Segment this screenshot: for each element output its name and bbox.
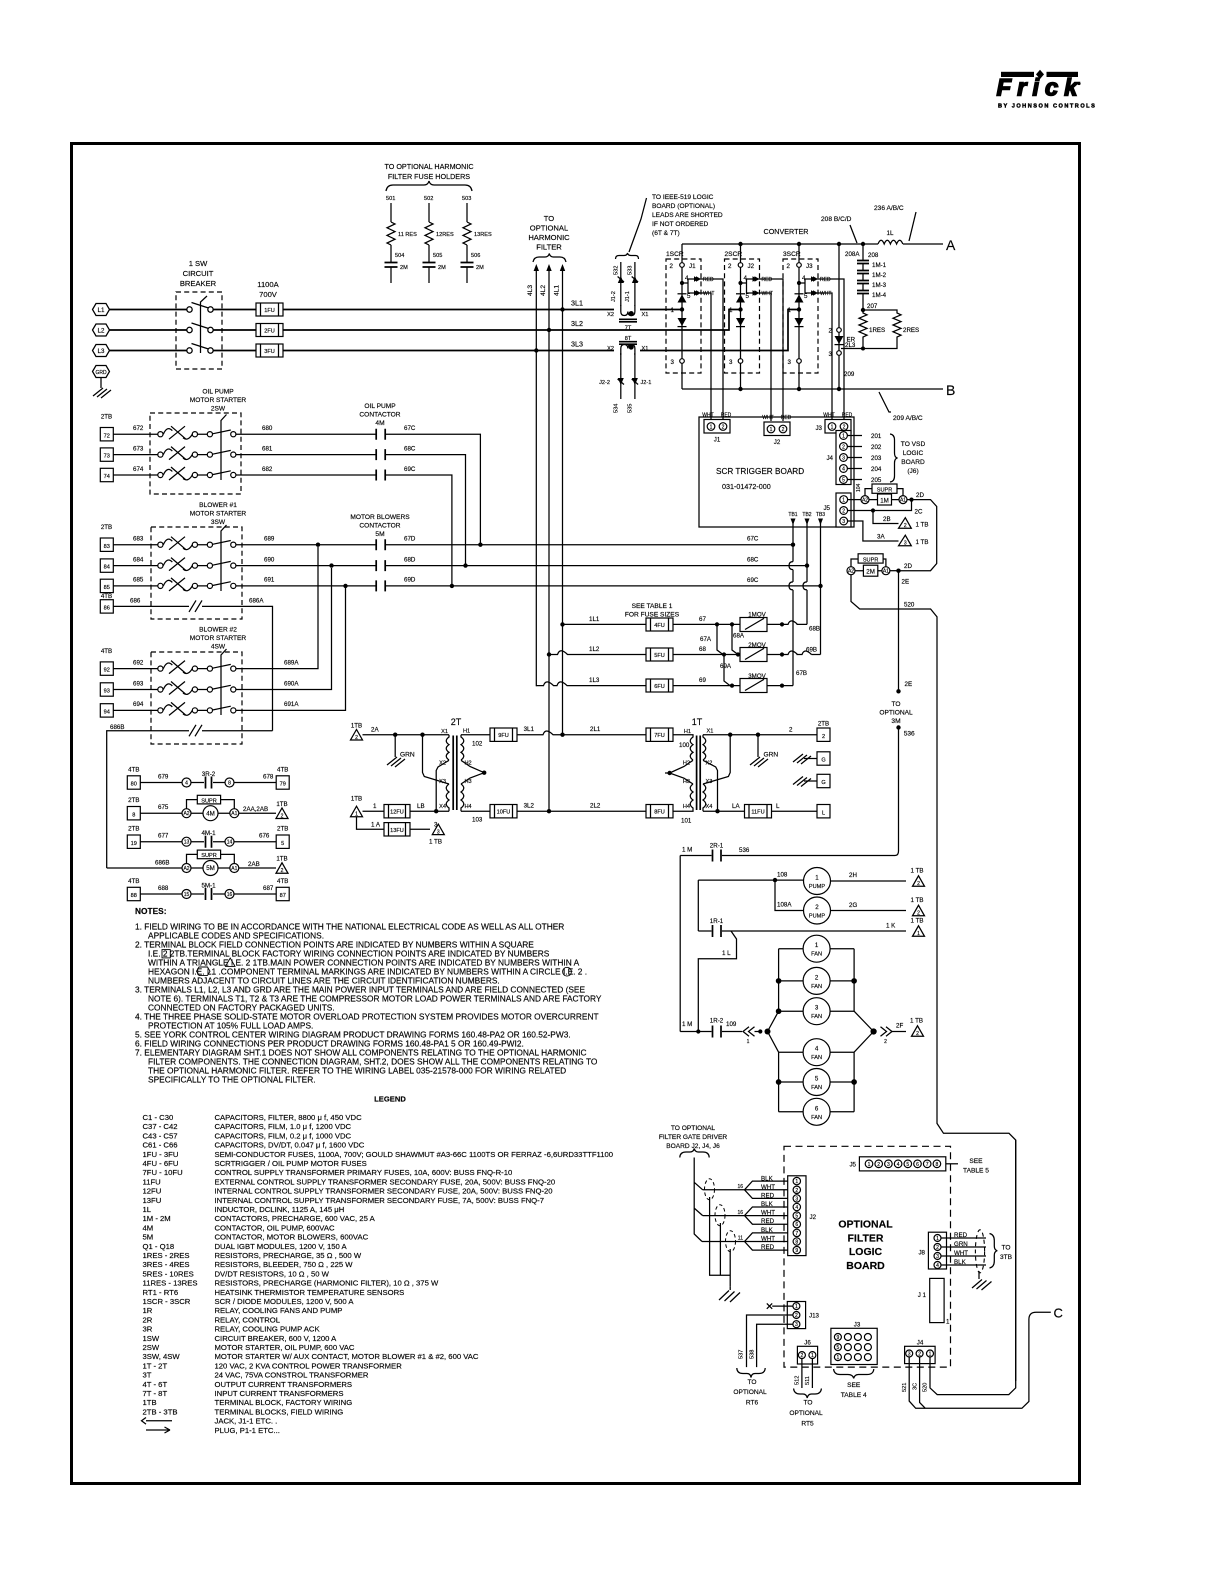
wire 503: [462, 196, 471, 222]
brace to VSD: [890, 434, 898, 482]
svg-text:1: 1: [795, 1304, 798, 1310]
terminal 73: [100, 448, 113, 461]
brace under title: [386, 181, 472, 191]
resistor 12RES: [425, 222, 454, 245]
svg-text:MOTOR STARTER W/ AUX CONTACT,: MOTOR STARTER W/ AUX CONTACT, MOTOR BLOW…: [215, 1352, 479, 1361]
svg-text:BLOWER #1: BLOWER #1: [199, 502, 237, 509]
svg-text:RED: RED: [762, 277, 773, 283]
fuse 13FU: [384, 823, 410, 836]
svg-text:IF NOT ORDERED: IF NOT ORDERED: [652, 221, 709, 228]
CT 7T secondary lead 533: [625, 262, 638, 306]
label 209 A/B/C: [879, 392, 923, 422]
svg-text:A1: A1: [900, 498, 906, 504]
to optional filter gate driver title: [659, 1125, 728, 1150]
varistor 3MOV: [740, 673, 767, 693]
svg-text:86: 86: [104, 606, 110, 612]
svg-text:SEE: SEE: [969, 1158, 983, 1165]
svg-text:C37 - C42: C37 - C42: [143, 1122, 178, 1131]
svg-text:1: 1: [747, 1039, 750, 1045]
SCR module 3SCR: [783, 244, 844, 419]
svg-text:85: 85: [104, 585, 110, 591]
svg-text:686B: 686B: [110, 724, 124, 731]
wire 521 to C: [902, 1306, 1063, 1409]
svg-text:L2: L2: [98, 328, 105, 335]
resistor 1RES: [859, 310, 885, 342]
svg-text:1 TB: 1 TB: [910, 1018, 923, 1025]
svg-text:109: 109: [726, 1021, 737, 1028]
svg-text:J2: J2: [774, 439, 781, 446]
optional filter logic board dashed outline: [784, 1146, 951, 1367]
svg-text:16: 16: [227, 892, 233, 898]
svg-text:H1: H1: [463, 729, 470, 735]
terminal 1TB 3: [429, 824, 444, 845]
svg-text:CONTACTOR: CONTACTOR: [359, 523, 400, 530]
svg-text:534: 534: [614, 404, 620, 413]
svg-text:3: 3: [842, 456, 845, 462]
border frame: [72, 144, 1080, 1484]
svg-text:7: 7: [795, 1231, 798, 1237]
svg-text:LA: LA: [732, 803, 740, 810]
svg-text:94: 94: [104, 710, 110, 716]
optional filter logic board title: [838, 1219, 893, 1272]
svg-text:73: 73: [104, 454, 110, 460]
svg-text:204: 204: [871, 466, 882, 473]
fan motor 5: [779, 1069, 855, 1096]
gate driver harness vertical: [694, 1158, 703, 1242]
svg-text:1M - 2M: 1M - 2M: [143, 1214, 171, 1223]
svg-text:3L2: 3L2: [524, 803, 535, 810]
svg-text:1L: 1L: [143, 1205, 152, 1214]
connector J4: [826, 431, 851, 485]
wire 67C: [385, 425, 482, 547]
capacitor 2M (3): [461, 263, 485, 284]
svg-text:2: 2: [355, 735, 358, 741]
svg-text:SPECIFICALLY TO THE OPTIONAL F: SPECIFICALLY TO THE OPTIONAL FILTER.: [148, 1075, 316, 1085]
svg-text:X1: X1: [707, 729, 714, 735]
wire 673: [113, 445, 376, 454]
svg-text:J3: J3: [815, 425, 822, 432]
svg-text:19: 19: [131, 841, 137, 847]
svg-text:6: 6: [795, 1222, 798, 1228]
wire breaker to fuse 3FU: [213, 350, 256, 352]
wire 1L2 row: [547, 646, 646, 657]
svg-text:15: 15: [184, 892, 190, 898]
junction 4L2-3L2: [547, 328, 551, 332]
svg-text:2: 2: [670, 263, 674, 270]
svg-text:2M: 2M: [476, 265, 484, 271]
svg-text:1 A: 1 A: [371, 821, 381, 828]
svg-text:11RES - 13RES: 11RES - 13RES: [143, 1279, 198, 1288]
svg-text:688: 688: [158, 885, 169, 892]
svg-text:Q1 - Q18: Q1 - Q18: [143, 1242, 175, 1251]
svg-text:J5: J5: [849, 1161, 856, 1168]
svg-text:WHT: WHT: [761, 1184, 775, 1191]
fuse 8FU: [646, 805, 673, 818]
svg-text:1 TB: 1 TB: [911, 897, 924, 904]
svg-text:683: 683: [133, 536, 144, 543]
svg-text:2RES: 2RES: [903, 327, 919, 334]
svg-text:J5: J5: [823, 505, 830, 512]
wire 68A jog: [732, 624, 745, 654]
wire 3A to terminal: [848, 521, 929, 547]
harness group 3 wires: [702, 1227, 793, 1251]
svg-text:RELAY, CONTROL: RELAY, CONTROL: [215, 1315, 281, 1324]
B rail: [682, 388, 943, 390]
wire 504: [391, 245, 404, 263]
svg-text:120 VAC, 2 KVA CONTROL POWER T: 120 VAC, 2 KVA CONTROL POWER TRANSFORMER: [215, 1361, 403, 1370]
svg-text:2G: 2G: [849, 902, 857, 909]
terminal 2TB 2 field: [817, 721, 830, 742]
wire 2F to terminal: [881, 1018, 924, 1046]
wire 69A jog: [720, 655, 732, 686]
svg-text:CONTACTOR: CONTACTOR: [359, 412, 400, 419]
svg-text:C43 - C57: C43 - C57: [143, 1131, 178, 1140]
fuse 11FU: [745, 805, 772, 818]
svg-text:WHT: WHT: [820, 291, 831, 297]
svg-text:TABLE 4: TABLE 4: [841, 1392, 867, 1399]
svg-text:RT6: RT6: [746, 1400, 759, 1407]
brace under filter title: [533, 254, 566, 263]
fuse 6FU: [646, 679, 673, 692]
svg-text:6: 6: [916, 1162, 919, 1168]
svg-text:1 M: 1 M: [682, 847, 692, 854]
svg-text:LOGIC: LOGIC: [849, 1246, 883, 1258]
svg-text:5M: 5M: [375, 531, 384, 538]
svg-text:67C: 67C: [404, 425, 416, 432]
wire LA 11FU L: [703, 803, 745, 811]
svg-text:3: 3: [887, 1162, 890, 1168]
svg-text:MOTOR STARTER, OIL PUMP, 600 V: MOTOR STARTER, OIL PUMP, 600 VAC: [215, 1343, 355, 1352]
wire 68C: [385, 445, 467, 567]
svg-text:2: 2: [722, 425, 725, 431]
brace above CT leads: [616, 253, 639, 259]
svg-text:FAN: FAN: [811, 952, 822, 958]
connector J1: [702, 413, 731, 444]
svg-text:RED: RED: [761, 1192, 775, 1199]
svg-text:TERMINAL BLOCKS, FIELD WIRING: TERMINAL BLOCKS, FIELD WIRING: [215, 1407, 344, 1416]
svg-text:2FU: 2FU: [264, 329, 275, 335]
svg-text:506: 506: [471, 253, 480, 259]
svg-text:WHT: WHT: [761, 1236, 775, 1243]
wire 1L jog: [696, 931, 736, 1034]
svg-text:INPUT CURRENT TRANSFORMERS: INPUT CURRENT TRANSFORMERS: [215, 1389, 344, 1398]
svg-text:2H: 2H: [849, 872, 857, 879]
svg-text:680: 680: [262, 425, 273, 432]
junction 4L3-3L3: [534, 348, 538, 352]
wire 4L1 with arrow: [554, 264, 566, 735]
svg-text:B: B: [946, 382, 955, 398]
wire 4L2 with arrow: [540, 264, 552, 811]
capacitor bank 1M-1..1M-4: [857, 244, 887, 312]
svg-text:694: 694: [133, 701, 144, 708]
svg-text:686A: 686A: [249, 597, 264, 604]
brace under gate driver title: [680, 1149, 709, 1158]
svg-text:3L1: 3L1: [571, 299, 583, 308]
wire 3L1 fuse to converter: [283, 309, 680, 311]
J5 to table 5: [946, 1158, 989, 1175]
svg-text:J8: J8: [918, 1250, 925, 1257]
label 208 B/C/D: [821, 216, 857, 243]
svg-text:2AB: 2AB: [248, 861, 260, 868]
svg-text:J2: J2: [810, 1214, 817, 1221]
svg-text:67A: 67A: [700, 636, 712, 643]
svg-text:TO IEEE-519 LOGIC: TO IEEE-519 LOGIC: [652, 194, 714, 201]
svg-text:69C: 69C: [747, 577, 759, 584]
svg-text:68C: 68C: [747, 557, 759, 564]
svg-text:OPTIONAL: OPTIONAL: [733, 1389, 767, 1396]
junction dots on blower rows: [316, 543, 320, 547]
svg-text:1: 1: [917, 931, 920, 937]
svg-text:1: 1: [815, 875, 819, 882]
terminal 4TB 86: [100, 593, 113, 613]
terminal 94: [100, 704, 113, 717]
fan bank left bus: [768, 949, 781, 1112]
wire 520 lower run: [923, 1140, 1016, 1395]
svg-text:3: 3: [829, 351, 833, 358]
svg-text:685: 685: [133, 577, 144, 584]
svg-text:1RES: 1RES: [869, 327, 885, 334]
twisted pair marks: [705, 1179, 736, 1252]
svg-text:TB3: TB3: [816, 512, 825, 518]
svg-text:103: 103: [472, 817, 483, 824]
svg-text:J3: J3: [854, 1322, 861, 1329]
svg-text:4TB: 4TB: [277, 767, 288, 774]
svg-text:3L2: 3L2: [571, 319, 583, 328]
J8 wires RED GRN WHT BLK: [941, 1230, 1013, 1273]
svg-text:RED: RED: [842, 413, 853, 419]
IEEE-519 note text: [652, 194, 723, 237]
terminal 4TB 92: [100, 648, 113, 675]
svg-text:X2: X2: [607, 346, 614, 352]
svg-text:FILTER: FILTER: [848, 1232, 884, 1244]
wire breaker to fuse 2FU: [213, 329, 256, 331]
svg-text:2F: 2F: [896, 1023, 903, 1030]
svg-text:MOTOR BLOWERS: MOTOR BLOWERS: [350, 514, 410, 521]
svg-text:SEE TABLE 1: SEE TABLE 1: [632, 603, 673, 610]
svg-text:INDUCTOR, DCLINK, 1125 A, 145: INDUCTOR, DCLINK, 1125 A, 145 μH: [215, 1205, 345, 1214]
svg-text:108A: 108A: [777, 902, 792, 909]
svg-text:201: 201: [871, 433, 882, 440]
connector J5: [823, 493, 851, 527]
svg-text:CONTACTOR, MOTOR BLOWERS, 600V: CONTACTOR, MOTOR BLOWERS, 600VAC: [215, 1233, 369, 1242]
svg-text:EXTERNAL CONTROL SUPPLY TRANSF: EXTERNAL CONTROL SUPPLY TRANSFORMER SECO…: [215, 1177, 556, 1186]
svg-text:1: 1: [946, 1319, 950, 1326]
connector J2: [762, 415, 791, 446]
svg-text:G: G: [821, 780, 825, 786]
svg-text:2E: 2E: [905, 681, 913, 688]
svg-text:3: 3: [795, 1196, 798, 1202]
svg-text:2SCR: 2SCR: [725, 251, 743, 258]
svg-text:BLK: BLK: [761, 1201, 774, 1208]
svg-text:J4: J4: [826, 455, 833, 462]
svg-text:682: 682: [262, 466, 273, 473]
svg-text:10FU: 10FU: [497, 810, 511, 816]
current transformer 7T: [607, 305, 648, 332]
breaker pole L2: [187, 323, 213, 333]
svg-text:501: 501: [386, 196, 395, 202]
svg-text:16: 16: [737, 1210, 743, 1216]
wire 4L3 with arrow: [527, 264, 539, 686]
svg-text:2TB: 2TB: [128, 797, 139, 804]
resistor 11RES: [387, 222, 417, 245]
svg-text:GRN: GRN: [764, 752, 779, 759]
svg-text:2: 2: [815, 904, 819, 911]
svg-text:4M: 4M: [206, 810, 215, 817]
fan bank right bus: [852, 949, 876, 1112]
svg-text:3FU: 3FU: [264, 349, 275, 355]
svg-text:2TB - 3TB: 2TB - 3TB: [143, 1407, 178, 1416]
junction T-wire dots: [791, 543, 795, 547]
svg-text:LOGIC: LOGIC: [903, 450, 924, 457]
inductor 1L: [878, 230, 903, 244]
svg-text:69D: 69D: [404, 577, 416, 584]
4SW pole 1: [158, 661, 236, 674]
resistor 2RES: [863, 310, 919, 349]
svg-text:OPTIONAL: OPTIONAL: [838, 1219, 893, 1231]
wire 3L1 to 2L1: [517, 726, 646, 737]
svg-text:1RES - 2RES: 1RES - 2RES: [143, 1251, 190, 1260]
svg-text:208: 208: [868, 252, 879, 259]
J8 shield ground: [972, 1271, 992, 1290]
fan motor 3: [779, 998, 855, 1025]
svg-text:4FU: 4FU: [654, 623, 665, 629]
svg-text:13RES: 13RES: [474, 232, 492, 238]
brace RT5: [794, 1389, 822, 1399]
CT 8T secondary lead 535: [628, 353, 652, 413]
svg-text:2: 2: [281, 868, 284, 874]
svg-text:4TB: 4TB: [277, 878, 288, 885]
svg-text:MOTOR STARTER: MOTOR STARTER: [190, 397, 247, 404]
fan motor 4: [779, 1039, 855, 1066]
svg-text:LB: LB: [417, 803, 425, 810]
terminal GRD: [93, 366, 110, 378]
wire 68D: [385, 556, 807, 565]
brace RT6: [737, 1368, 765, 1378]
svg-text:2L3: 2L3: [845, 342, 856, 349]
svg-text:679: 679: [158, 774, 169, 781]
svg-text:68C: 68C: [404, 445, 416, 452]
svg-text:690A: 690A: [284, 680, 299, 687]
svg-text:202: 202: [871, 444, 882, 451]
4SW aux contact 686B: [107, 725, 273, 868]
svg-text:2: 2: [801, 1353, 804, 1359]
relay contact 1R-1: [698, 880, 924, 937]
wire 502: [424, 196, 433, 222]
svg-text:(J6): (J6): [907, 468, 918, 475]
svg-text:5: 5: [687, 293, 691, 300]
svg-text:2: 2: [795, 1188, 798, 1194]
svg-text:1M-2: 1M-2: [872, 272, 887, 279]
svg-text:CIRCUIT BREAKER, 600 V, 1200 A: CIRCUIT BREAKER, 600 V, 1200 A: [215, 1334, 338, 1343]
contactor 4M contacts: [376, 429, 385, 481]
IEEE callout line: [629, 198, 647, 252]
svg-text:69B: 69B: [806, 647, 817, 654]
note2 inline triangle symbol: [226, 958, 236, 966]
svg-text:535: 535: [628, 404, 634, 413]
fuse 9FU: [461, 728, 517, 748]
svg-text:92: 92: [104, 668, 110, 674]
terminal 93: [100, 683, 113, 696]
svg-text:4TB: 4TB: [128, 767, 139, 774]
2SW pole 3: [158, 467, 236, 480]
SCR module 1SCR: [666, 244, 723, 419]
svg-text:2: 2: [918, 1352, 921, 1358]
relay contact 4M-1 row: [127, 826, 289, 849]
svg-text:68D: 68D: [404, 556, 416, 563]
svg-text:83: 83: [104, 544, 110, 550]
svg-text:3L1: 3L1: [524, 726, 535, 733]
circuit breaker 1SW dashed box: [176, 292, 222, 369]
svg-text:3SW: 3SW: [211, 519, 226, 526]
svg-text:H4: H4: [465, 804, 472, 810]
svg-text:68A: 68A: [733, 633, 745, 640]
wire 3C: [912, 1357, 925, 1408]
svg-text:J6: J6: [804, 1340, 811, 1347]
legend table: [143, 1113, 614, 1435]
svg-text:4: 4: [815, 1046, 819, 1053]
svg-text:209 A/B/C: 209 A/B/C: [893, 415, 923, 422]
svg-text:L1: L1: [98, 307, 105, 314]
svg-text:CAPACITORS, FILM, 0.2 μ f,: CAPACITORS, FILM, 0.2 μ f, 1000 VDC: [215, 1131, 352, 1140]
svg-text:24 VAC, 75VA CONSTROL TRANSFOR: 24 VAC, 75VA CONSTROL TRANSFORMER: [215, 1371, 369, 1380]
svg-text:DV/DT RESISTORS, 10 Ω , 50 W: DV/DT RESISTORS, 10 Ω , 50 W: [215, 1269, 330, 1278]
J13 wires: [739, 1303, 793, 1367]
contactor 5M contacts: [376, 539, 385, 591]
CT 7T secondary lead 532: [611, 262, 624, 306]
svg-text:6: 6: [815, 1105, 819, 1112]
svg-text:2R-1: 2R-1: [710, 843, 724, 850]
svg-text:5M: 5M: [143, 1233, 154, 1242]
terminal L1: [93, 304, 110, 316]
svg-text:674: 674: [133, 466, 144, 473]
svg-text:1SW: 1SW: [143, 1334, 160, 1343]
svg-text:4: 4: [795, 1205, 798, 1211]
svg-text:1R-2: 1R-2: [710, 1018, 724, 1025]
3SW pole 1: [158, 537, 236, 550]
terminal L2: [93, 324, 110, 336]
svg-text:684: 684: [133, 556, 144, 563]
wire 67: [673, 616, 740, 627]
svg-text:X4: X4: [439, 804, 446, 810]
svg-text:14: 14: [227, 840, 233, 846]
svg-text:TO OPTIONAL HARMONIC: TO OPTIONAL HARMONIC: [384, 162, 473, 171]
terminal 1TB 1: [351, 796, 363, 818]
svg-text:4M-1: 4M-1: [201, 830, 216, 837]
svg-text:RT5: RT5: [801, 1420, 814, 1427]
fuse 4FU: [646, 618, 673, 631]
svg-text:DUAL IGBT MODULES, 1200 V, 150: DUAL IGBT MODULES, 1200 V, 150 A: [215, 1242, 348, 1251]
svg-text:686: 686: [130, 597, 141, 604]
svg-text:3: 3: [729, 359, 733, 366]
svg-text:INTERNAL CONTROL SUPPLY TRANSF: INTERNAL CONTROL SUPPLY TRANSFORMER SECO…: [215, 1187, 553, 1196]
svg-text:GRN: GRN: [400, 752, 415, 759]
svg-text:FILTER GATE DRIVER: FILTER GATE DRIVER: [659, 1134, 728, 1141]
svg-text:X4: X4: [706, 804, 713, 810]
svg-text:FAN: FAN: [811, 1014, 822, 1020]
svg-text:031-01472-000: 031-01472-000: [722, 482, 771, 491]
svg-text:1FU - 3FU: 1FU - 3FU: [143, 1150, 179, 1159]
connector J1 filter board: [918, 1278, 950, 1325]
svg-text:2A: 2A: [371, 727, 379, 734]
legend plug symbol: [146, 1427, 170, 1433]
svg-text:J1: J1: [689, 263, 696, 270]
svg-text:INTERNAL CONTROL SUPPLY TRANSF: INTERNAL CONTROL SUPPLY TRANSFORMER SECO…: [215, 1196, 545, 1205]
svg-text:3: 3: [908, 1352, 911, 1358]
svg-text:5FU: 5FU: [654, 653, 665, 659]
svg-text:2L1: 2L1: [590, 726, 601, 733]
svg-text:536: 536: [904, 731, 915, 738]
svg-text:BLK: BLK: [954, 1259, 967, 1266]
